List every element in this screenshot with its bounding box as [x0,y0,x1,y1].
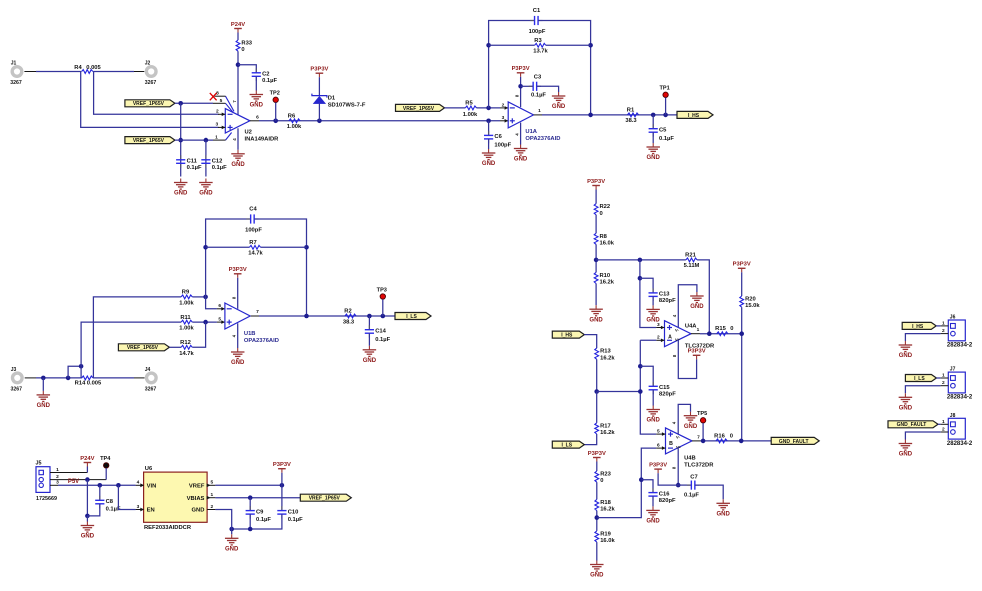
svg-text:TP4: TP4 [100,456,111,462]
U1A pin 8 mark [514,94,519,97]
diode D1 SD107WS-7-F [312,94,366,109]
junction C15 tap [638,364,643,369]
net flag I_LS (comparator) [552,441,584,448]
svg-text:GND: GND [690,304,704,310]
U4B V- pin wire [672,404,691,434]
ground C12 [199,179,213,197]
svg-text:3: 3 [137,504,140,510]
test point TP1 [659,86,669,98]
svg-text:U4B: U4B [684,456,696,462]
wire C9 to rail [249,514,251,529]
power P3P3V (U1B) [229,267,247,278]
svg-text:C15: C15 [659,385,670,391]
wire node B to U4B pin6 [597,448,656,517]
svg-text:VREF_1P65V: VREF_1P65V [133,101,165,107]
wire C12 stem [205,140,207,176]
junction node A join [638,389,643,394]
svg-text:0.1µF: 0.1µF [684,493,699,499]
connector J5 (1725669) [36,461,58,502]
svg-text:282834-2: 282834-2 [947,395,973,401]
svg-text:I_LS: I_LS [406,314,417,320]
wire flag to J7 pin1 [936,377,940,379]
svg-text:1: 1 [942,373,945,379]
svg-text:C5: C5 [659,127,667,133]
wire C6 stem [488,121,490,136]
wire EN branch [118,485,135,509]
junction node B [595,515,600,520]
svg-text:R7: R7 [249,240,256,246]
ground R10 [589,305,603,323]
wire P3P3V to D1 [318,77,320,95]
U2 pin 8 stub (NC) [214,91,225,97]
junction R9/feedback [203,295,208,300]
wire GND riser [86,516,88,522]
svg-text:5: 5 [210,480,213,486]
wire V+ to P3P3V [658,473,678,485]
connector J7 282834-2 [947,367,973,401]
svg-text:16.2k: 16.2k [600,430,615,436]
U2 pin 3 stub [215,122,225,130]
svg-text:3: 3 [215,122,218,128]
junction D1 [317,119,322,124]
wire flag to U2 pin5 [175,102,213,104]
svg-text:282834-2: 282834-2 [947,343,973,349]
svg-text:R3: R3 [534,38,542,44]
wire R22 to R8 [595,215,597,233]
wire chain2 vertical [640,340,656,434]
ground C3 [552,92,566,110]
svg-text:GND: GND [199,191,213,197]
svg-text:0: 0 [600,211,603,217]
ground C11 [174,179,188,197]
junction C8 bottom [85,514,90,519]
U1B pin 8 mark [231,296,236,299]
U4A V+ pin wire [672,340,697,379]
wire C14 to GND [368,333,370,346]
svg-text:C14: C14 [375,328,386,334]
wire R11 to U1B pin5 [192,320,225,324]
resistor R17 16.2k [595,423,616,436]
svg-text:16.2k: 16.2k [600,355,615,361]
svg-text:R22: R22 [600,204,611,210]
net flag I_HS (comparator) [552,331,584,338]
net flag VREF_1P65V (U2 pin1) [125,137,175,144]
svg-text:SD107WS-7-F: SD107WS-7-F [328,102,366,108]
svg-text:3: 3 [56,480,59,486]
ground J3 [37,391,51,409]
svg-text:C16: C16 [659,491,670,497]
svg-text:0.1µF: 0.1µF [262,78,277,84]
wire threshold node to R21 [596,259,686,261]
svg-text:4: 4 [137,480,140,486]
connector J4 (3267) [145,367,157,393]
capacitor C4 100pF [245,207,262,234]
ground J8 [899,440,913,458]
resistor R7 14.7k [248,240,263,257]
U1B pin 7 output stub [251,309,259,316]
wire J1 to R4 [24,71,81,73]
svg-text:R9: R9 [182,290,190,296]
junction C13 tap [638,276,643,281]
svg-text:6: 6 [218,303,221,309]
resistor R23 0 [595,471,612,484]
svg-text:J4: J4 [145,367,151,373]
resistor R8 16.0k [594,233,615,246]
wire P24V to pin1 [86,467,88,473]
wire kelvin J1-side to U2 pin3 [81,72,219,128]
junction C16 tap [639,477,644,482]
wire pin2 to GND rail [86,480,88,516]
ground J6 [899,341,913,359]
wire D1 to rail [318,104,320,121]
svg-text:0.1µF: 0.1µF [187,165,202,171]
svg-text:GND: GND [717,512,731,518]
svg-text:R33: R33 [241,41,252,47]
wire R4 to J2 [93,71,144,73]
power P3P3V (REF2033) [273,462,291,473]
U2 pin 7 mark [232,100,237,103]
svg-text:1.00k: 1.00k [179,326,194,332]
ground R19 [590,561,604,579]
wire R20 to outputs [741,307,743,441]
svg-text:0.1µF: 0.1µF [212,165,227,171]
svg-text:J3: J3 [11,367,17,373]
svg-text:GND: GND [231,162,245,168]
svg-text:3267: 3267 [11,386,23,392]
resistor R19 16.0k [595,531,616,544]
svg-text:VREF: VREF [189,483,205,489]
U2 pin 5 stub [213,98,226,104]
svg-text:VBIAS: VBIAS [187,496,205,502]
junction U4A out/R21 [707,331,712,336]
svg-text:TP3: TP3 [377,287,387,293]
svg-text:3267: 3267 [145,386,157,392]
J7 pin1 stub [941,373,949,379]
svg-text:0: 0 [730,326,733,332]
wire U1A output [542,114,677,116]
wire C15 branch [640,366,653,386]
wire to C3 [521,85,534,87]
wire C9 stem [249,498,251,511]
junction C3 [518,84,523,89]
junction C8 top [98,483,103,488]
wire TP1 stem [665,98,667,115]
resistor R1 38.3 [625,107,638,124]
svg-text:J5: J5 [36,461,42,467]
svg-text:J8: J8 [950,413,956,419]
svg-text:3: 3 [657,322,660,328]
svg-text:GND: GND [647,418,661,424]
svg-text:282834-2: 282834-2 [947,441,973,447]
junction GND rail [229,527,234,532]
net flag GND_FAULT (J8) [888,421,938,428]
svg-text:VIN: VIN [147,483,157,489]
junction R7 left [203,245,208,250]
wire to C7 [678,484,691,486]
junction J5 pin2 / GND [85,477,90,482]
svg-text:6: 6 [657,442,660,448]
wire C16 to GND [652,496,654,506]
wire R3 left [489,44,535,46]
svg-text:GND: GND [647,155,661,161]
svg-text:7: 7 [697,434,700,440]
wire P3P3V to U1B V+ [237,278,239,309]
svg-text:EN: EN [147,508,155,514]
svg-text:38.3: 38.3 [625,118,637,124]
svg-text:3: 3 [502,115,505,121]
junction R16/R20 [739,439,744,444]
test point TP4 [100,456,111,468]
svg-text:100pF: 100pF [245,228,262,234]
junction kelvin jog top [79,364,84,369]
wire R9 to junction [192,296,205,298]
svg-text:GND: GND [231,360,245,366]
svg-text:VREF_1P65V: VREF_1P65V [403,106,435,112]
op-amp U1A OPA2376AID [508,102,560,142]
wire VREF to P3P3V [215,484,282,486]
junction TP5/output [701,439,706,444]
wire U4A output [700,333,742,335]
U6 pin GND stub [192,504,216,514]
net label P5V [68,479,79,485]
svg-text:TP2: TP2 [270,91,280,97]
svg-text:C10: C10 [288,509,299,515]
svg-text:38.3: 38.3 [343,319,355,325]
wire to C2 [238,65,256,73]
wire P3P3V to U1A V+ [520,77,522,107]
ground C15 [646,406,660,424]
svg-text:R15: R15 [715,326,726,332]
wire P3P3V stem [281,473,283,486]
svg-text:U6: U6 [145,466,153,472]
junction TP1 [663,113,668,118]
junction TP3 [381,314,386,319]
capacitor C9 0.1uF [246,506,272,523]
wire C13 to GND [652,296,654,305]
svg-text:0.1µF: 0.1µF [375,337,390,343]
wire C10 to rail [232,514,282,529]
wire TP2 stem [275,103,277,121]
wire R14 to J4 [93,377,145,379]
J5 pin3 wire [50,480,136,486]
U4A pin 3 stub [656,322,664,330]
svg-text:I_LS: I_LS [914,376,925,382]
svg-text:820pF: 820pF [659,392,676,398]
svg-text:5: 5 [218,316,221,322]
svg-text:R23: R23 [600,472,611,478]
svg-text:2: 2 [942,380,945,386]
svg-text:GND: GND [590,573,604,579]
svg-text:13.7k: 13.7k [533,49,548,55]
ground C16 [646,506,660,524]
wire R12 to R11 node [192,322,205,347]
resistor R18 16.2k [595,499,616,512]
capacitor C8 0.1uF [95,496,121,513]
svg-text:R10: R10 [600,273,611,279]
svg-text:B: B [669,441,673,447]
svg-text:C11: C11 [187,158,198,164]
svg-text:R4: R4 [74,65,82,71]
ground C5 [646,143,660,161]
resistor R4 0.005 [74,65,101,73]
svg-text:R18: R18 [600,500,611,506]
svg-text:C2: C2 [262,72,269,78]
resistor R6 1.00k [287,113,302,130]
svg-text:U1A: U1A [525,129,537,135]
junction TP2 [273,119,278,124]
U1B pin 5 number [218,316,221,322]
U6 pin EN stub [136,504,155,514]
svg-text:14.7k: 14.7k [179,351,194,357]
svg-text:J6: J6 [950,315,956,321]
svg-text:2: 2 [942,427,945,433]
svg-text:R1: R1 [627,107,635,113]
svg-text:16.2k: 16.2k [600,507,615,513]
svg-text:GND: GND [81,534,95,540]
capacitor C5 0.1uF [649,124,675,142]
svg-text:5: 5 [657,428,660,434]
U2 pin 2 stub [216,109,225,117]
wire flag to J8 pin1 [938,423,941,425]
svg-text:C8: C8 [106,499,114,505]
svg-text:GND: GND [225,547,239,553]
junction J3 GND tap [41,376,46,381]
op-amp U4A TLC372DR [665,321,716,350]
wire GND tap [42,378,44,391]
svg-text:1: 1 [942,419,945,425]
no-connect X on pin 8 [210,93,217,100]
svg-text:14.7k: 14.7k [248,251,263,257]
svg-text:C7: C7 [690,474,697,480]
wire node A to R17 [596,392,598,423]
junction C6 [486,119,491,124]
wire TP4 stem [105,468,107,480]
junction chain1 top [638,258,643,263]
capacitor C12 0.1uF [201,155,227,171]
ground U1A [514,145,528,163]
svg-text:GND: GND [514,157,528,163]
resistor R2 38.3 [343,309,356,326]
svg-text:GND: GND [363,358,377,364]
U4A pin 1 stub [691,327,700,334]
junction C14 [367,314,372,319]
U4B V+ pin wire [672,448,679,486]
svg-text:0.1µF: 0.1µF [531,92,546,98]
power P3P3V (R23 chain) [588,451,606,462]
wire C8 stem [99,485,101,500]
wire U4A pin2 wire [640,339,656,341]
U2 pin 1 stub [213,134,226,140]
svg-text:VREF_1P65V: VREF_1P65V [133,138,165,144]
wire P3P3V to C10 [281,485,283,510]
svg-text:A: A [668,334,672,340]
U2 pin 6 output stub [250,114,259,121]
svg-text:GND: GND [899,353,913,359]
power P3P3V (D1) [310,67,328,78]
svg-text:TLC372DR: TLC372DR [684,463,714,469]
svg-text:INA149AIDR: INA149AIDR [245,137,280,143]
resistor R10 16.2k [594,272,615,285]
svg-text:R12: R12 [180,340,191,346]
svg-text:3267: 3267 [145,80,157,86]
svg-text:R8: R8 [600,234,608,240]
wire R7 left [206,246,250,248]
wire R21 to U4A output [697,260,709,334]
wire R19 to GND [596,542,598,560]
op-amp U4B TLC372DR [666,428,715,469]
capacitor C1 100pF [529,8,546,35]
svg-text:2: 2 [657,335,660,341]
U4A pin 2 stub [656,335,664,343]
net flag I_LS (J7) [905,375,936,382]
svg-text:R21: R21 [685,252,696,258]
resistor R20 15.0k [740,296,761,309]
resistor R22 0 [594,204,610,217]
power P3P3V (divider top) [587,179,605,190]
wire C13 branch [640,278,653,293]
resistor R33 0 [236,40,253,53]
svg-text:J1: J1 [11,60,17,66]
wire TP5 stem [702,423,704,441]
svg-text:2: 2 [216,109,219,115]
svg-text:GND: GND [899,406,913,412]
svg-text:C4: C4 [249,207,257,213]
svg-text:I_HS: I_HS [561,333,573,339]
ground U4B V- [684,412,698,430]
wire C4 to right vertical [254,219,306,316]
test point TP2 [270,91,280,103]
wire C2 to GND [255,76,257,90]
svg-text:GND: GND [589,317,603,323]
U1B pin 6 number [218,303,221,309]
junction VREF/P3P3V [280,483,285,488]
junction VREF flag [178,101,183,106]
svg-text:C1: C1 [533,8,541,14]
power P3P3V (U4A V+) [688,349,706,360]
svg-text:16.0k: 16.0k [600,538,615,544]
capacitor C15 820pF [649,382,677,398]
wire C8 to rail [87,504,99,516]
net flag GND_FAULT (output) [771,437,819,444]
svg-text:R13: R13 [600,349,611,355]
svg-text:2: 2 [210,504,213,510]
wire node A to chain2 [597,391,641,393]
resistor R3 13.7k [533,38,548,55]
wire U6 GND to rail [215,510,231,535]
J8 pin2 stub [941,427,949,433]
svg-text:820pF: 820pF [659,298,676,304]
wire R7 right [261,246,307,248]
svg-text:1: 1 [56,467,59,473]
svg-text:P3P3V: P3P3V [649,463,667,469]
connector J3 (3267) [11,367,23,393]
resistor R16 0 [714,433,733,442]
junction EN tap [116,483,121,488]
power P3P3V (U4B V+) [649,463,667,474]
wire R10 to GND [595,284,597,306]
wire R3 right [546,44,591,46]
wire C6 to GND [488,139,490,149]
svg-text:2: 2 [56,474,59,480]
U2 pin 4 mark [232,138,237,141]
svg-text:1.00k: 1.00k [463,112,478,118]
op-amp U1B OPA2376AID [225,303,279,344]
power P24V [231,22,245,33]
U1A pin 2 number [502,102,505,108]
capacitor C10 0.1uF [277,506,303,523]
svg-text:2: 2 [942,328,945,334]
connector J6 282834-2 [947,315,973,349]
